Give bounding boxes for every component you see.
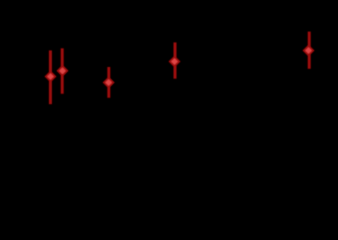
marker point 4: [170, 57, 179, 66]
marker point 1: [46, 72, 55, 81]
error bar point 1: [49, 50, 52, 104]
error bar point 2: [61, 48, 64, 94]
marker point 2: [58, 66, 67, 75]
error bar point 5: [308, 32, 311, 69]
error bar point 3: [107, 67, 110, 98]
marker point 5: [304, 46, 313, 55]
error bar point 4: [174, 42, 177, 78]
marker point 3: [104, 78, 113, 87]
